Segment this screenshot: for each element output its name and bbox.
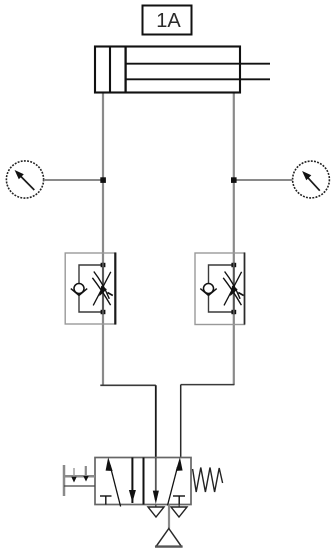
exhaust triangle right (port 3) <box>171 507 187 517</box>
cylinder piston rod top line <box>126 63 270 65</box>
bypass inner rect <box>209 265 234 312</box>
gauge left stub wire <box>44 179 103 181</box>
junction dot top <box>231 263 236 267</box>
left box path up-arrow (diagonal) <box>106 457 121 506</box>
pressure gauge right <box>293 161 330 198</box>
check valve seat right <box>79 289 87 296</box>
cylinder piston rod bottom line <box>126 78 270 80</box>
supply source triangle <box>156 529 181 547</box>
wire right main vertical from cylinder to elbow <box>233 93 235 385</box>
wire left drop to valve <box>155 385 157 458</box>
pilot actuator stem 1 <box>73 468 75 477</box>
check valve seat right <box>209 289 217 296</box>
flow control valve left (one-way FCV) <box>65 253 115 325</box>
throttle adjust arrow <box>224 272 242 306</box>
bypass inner rect <box>79 265 103 312</box>
left box path down-arrow (vertical) <box>129 458 136 504</box>
right box path up-arrow (diagonal from supply) <box>168 457 183 505</box>
right box blocked port T <box>173 496 185 505</box>
throttle arc A <box>225 272 241 299</box>
junction node right <box>231 177 237 183</box>
junction dot top <box>101 263 106 267</box>
outer rect right edge dark <box>244 253 246 325</box>
check valve seat left <box>200 289 208 296</box>
outer rect <box>195 253 245 325</box>
throttle spur <box>238 293 243 296</box>
wire elbow rail right <box>181 384 235 386</box>
label box 1A <box>143 6 192 35</box>
check valve circle <box>74 284 84 294</box>
wire right drop to valve <box>180 385 182 458</box>
junction node left <box>100 177 106 183</box>
pilot actuator arrow 2 <box>83 476 88 482</box>
junction dot bottom <box>231 310 236 314</box>
throttle arc A <box>94 272 110 299</box>
return spring right <box>193 468 223 493</box>
pressure gauge left <box>6 161 43 198</box>
pilot actuator left vertical bar <box>63 465 66 496</box>
svg-text:1A: 1A <box>156 10 181 32</box>
exhaust stub right <box>178 505 180 508</box>
supply triangle base bar <box>155 545 183 547</box>
pilot actuator bottom horizontal <box>64 485 95 487</box>
wire left main vertical from cylinder to elbow <box>102 93 104 386</box>
exhaust stub left <box>155 505 157 508</box>
left box blocked port T <box>100 496 112 505</box>
throttle arc B <box>92 278 110 305</box>
right box path down (from top port to exhaust) <box>153 458 159 504</box>
check valve seat left <box>71 289 79 296</box>
pilot actuator top horizontal <box>64 475 95 478</box>
wire segment dark through valve <box>233 263 235 314</box>
wire segment dark through valve <box>102 263 104 314</box>
outer rect right edge dark <box>114 253 116 325</box>
cylinder 1A body <box>95 47 240 93</box>
throttle adjust arrow <box>93 272 111 306</box>
junction dot bottom <box>101 310 106 314</box>
outer rect <box>65 253 115 324</box>
flow control valve right (one-way FCV) <box>195 253 245 325</box>
divider <box>143 458 145 505</box>
gauge right stub wire <box>234 179 293 181</box>
pilot actuator arrow 1 <box>71 477 76 483</box>
throttle arc B <box>223 278 241 305</box>
supply line (port 1) <box>168 505 170 529</box>
valve 5/2 body <box>95 458 191 505</box>
cylinder piston line 1 <box>109 46 111 93</box>
exhaust triangle left (port 5) <box>148 507 164 517</box>
check valve circle <box>204 284 214 294</box>
pilot actuator stem 2 <box>85 466 87 478</box>
cylinder piston line 2 <box>124 46 126 93</box>
throttle spur <box>108 293 113 296</box>
wire elbow rail left <box>100 384 156 386</box>
